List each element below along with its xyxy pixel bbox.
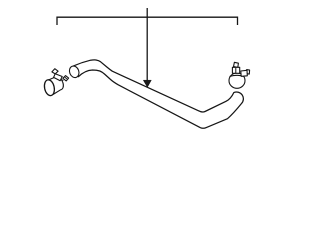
left clamp bbox=[43, 69, 69, 97]
tab neck bbox=[61, 79, 64, 82]
hose opening ellipse bbox=[68, 65, 81, 79]
band line bbox=[230, 75, 244, 76]
right tab inner line bbox=[65, 77, 67, 79]
disc bbox=[43, 79, 56, 97]
tower slot bbox=[235, 68, 237, 73]
right tab outer end bbox=[247, 70, 250, 75]
arrowhead bbox=[143, 80, 151, 87]
right tab bbox=[63, 76, 69, 81]
upper tab bbox=[52, 69, 58, 74]
band cylinder bbox=[48, 77, 64, 95]
screw tower bbox=[232, 67, 239, 73]
leader line bbox=[146, 8, 148, 82]
body bbox=[229, 73, 245, 88]
hose body outline bbox=[74, 60, 244, 128]
right clamp bbox=[229, 62, 250, 88]
screw housing bbox=[54, 74, 63, 81]
right tab bbox=[241, 70, 248, 76]
callout bracket bbox=[57, 17, 238, 25]
screw head tab bbox=[234, 62, 239, 67]
